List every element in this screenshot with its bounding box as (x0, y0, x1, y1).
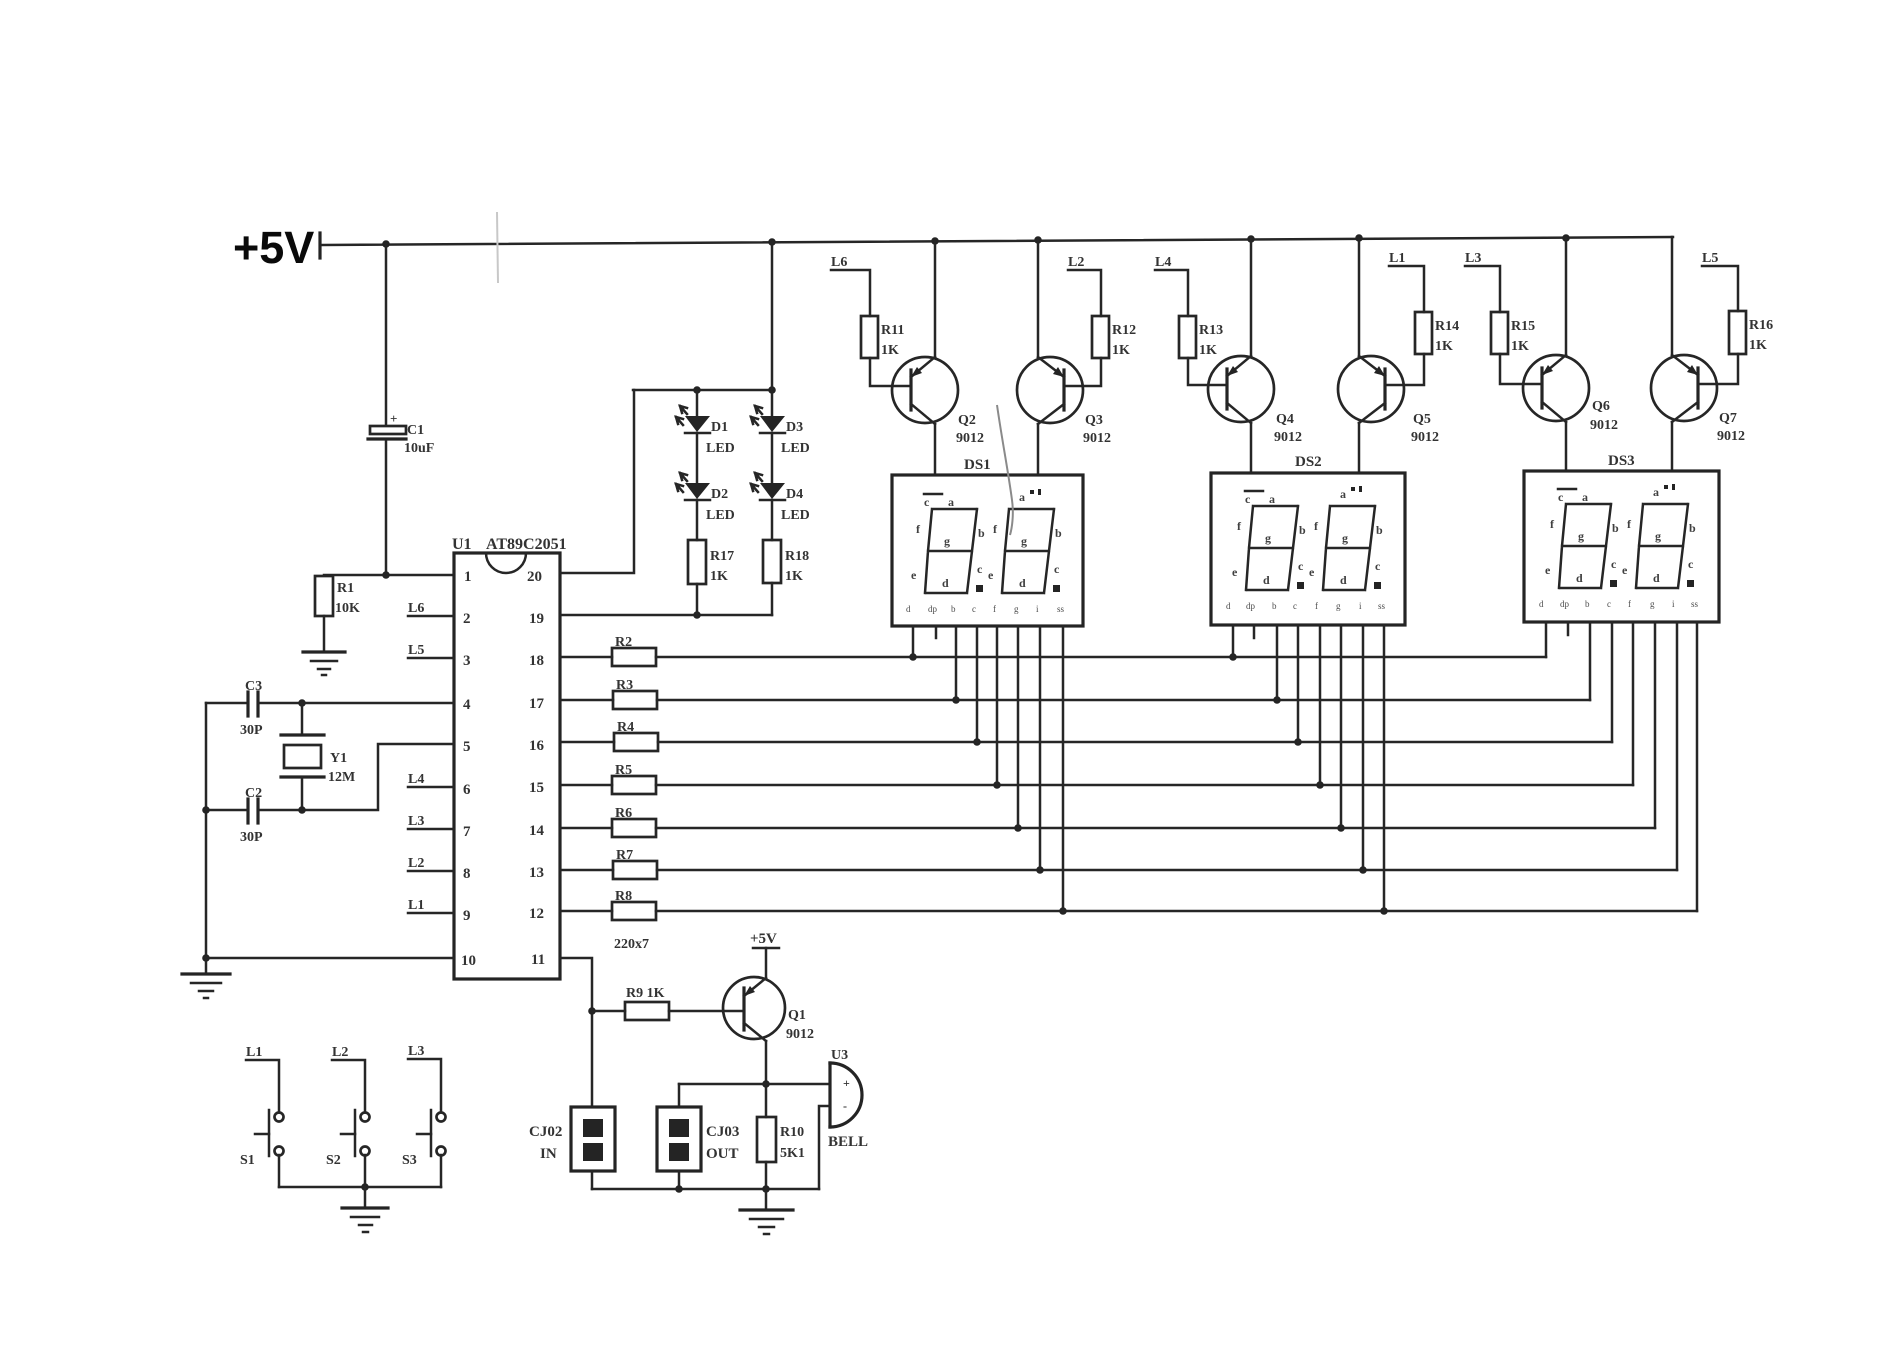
svg-text:9012: 9012 (956, 431, 984, 446)
connector CON3 OUT (657, 1107, 739, 1171)
display DS2 body (1211, 473, 1405, 625)
svg-text:12M: 12M (328, 770, 355, 785)
svg-text:f: f (1628, 599, 1631, 609)
wire pin 5 elbow (258, 744, 454, 810)
wire DS3 pin c to bus c end (1611, 622, 1614, 742)
svg-text:R10: R10 (780, 1125, 804, 1140)
svg-text:Q3: Q3 (1085, 413, 1103, 428)
resistor R11 1K (861, 316, 904, 358)
svg-text:d: d (906, 604, 911, 614)
svg-text:e: e (1309, 565, 1315, 579)
svg-text:+: + (843, 1076, 850, 1090)
resistor R13 1K (1179, 316, 1223, 358)
DS1 left digit letters (911, 494, 985, 592)
DS2 bottom pin name row (1226, 601, 1386, 611)
svg-text:L1: L1 (408, 898, 424, 913)
svg-text:D3: D3 (786, 420, 803, 435)
wire DS3 pin a to bus a end (1545, 622, 1548, 657)
node bus e / DS2 junction (1337, 824, 1345, 832)
+5V symbol above Q1 (750, 931, 779, 948)
svg-text:1K: 1K (1435, 339, 1453, 354)
wire R11 to Q2 base (870, 358, 911, 386)
svg-text:g: g (1342, 531, 1348, 545)
node D1 column junction (693, 386, 701, 394)
wire segment bus g (R8 to DS3) (656, 910, 1697, 913)
svg-text:d: d (1340, 573, 1347, 587)
svg-text:a: a (1019, 490, 1025, 504)
node pin10 corner junction (202, 954, 210, 962)
wire +5V to Q1 emitter (765, 948, 768, 978)
DS1 right digit letters (988, 489, 1062, 592)
wire Q6 emitter to rail (1565, 238, 1568, 355)
wire crystal top stub (301, 703, 304, 734)
wire DS3 pin e to bus e end (1654, 622, 1657, 828)
wire R18 bottom riser (771, 583, 774, 615)
node bus e / DS1 junction (1014, 824, 1022, 832)
svg-text:19: 19 (529, 611, 544, 627)
svg-text:L4: L4 (1155, 255, 1171, 270)
wire pin 1 (RST) (324, 574, 454, 577)
resistor R18 1K (763, 540, 809, 584)
scan artifact stroke near DS1 (997, 405, 1013, 535)
svg-text:LED: LED (706, 441, 735, 456)
wire bell feed line (679, 1083, 830, 1086)
svg-text:30P: 30P (240, 723, 263, 738)
wire DS2 pin e to bus e (1340, 625, 1343, 828)
scan artifact stroke above IC (497, 212, 498, 283)
wire segment bus f (R7 to DS3) (657, 869, 1677, 872)
node rail/Q4 junction (1247, 235, 1255, 243)
wire DS3 pin b to bus b end (1589, 622, 1592, 700)
wire DS1 pin d to bus d (996, 626, 999, 785)
svg-text:c: c (1375, 559, 1381, 573)
wire pin 11 down (560, 958, 592, 1107)
svg-text:R7: R7 (616, 848, 633, 863)
svg-text:c: c (1298, 559, 1304, 573)
svg-text:R8: R8 (615, 889, 632, 904)
resistor R15 1K (1491, 312, 1535, 354)
wire L5 to R16 (1702, 266, 1738, 311)
node bus g / DS1 junction (1059, 907, 1067, 915)
wire Q1 collector down (765, 1041, 768, 1117)
svg-text:5: 5 (463, 739, 471, 755)
wire DS1 common stub (935, 626, 938, 638)
svg-text:g: g (1655, 529, 1661, 543)
svg-text:b: b (1612, 521, 1619, 535)
svg-text:L6: L6 (408, 601, 424, 616)
wire pin 20 (560, 390, 634, 573)
svg-text:10K: 10K (335, 601, 360, 616)
wire segment bus e (R6 to DS3) (656, 827, 1655, 830)
wire Q4 collector to DS2 (1250, 423, 1253, 473)
svg-text:8: 8 (463, 866, 471, 882)
node bus b / DS2 junction (1273, 696, 1281, 704)
svg-text:6: 6 (463, 782, 471, 798)
IC U1 AT89C2051 body (454, 553, 560, 979)
wire pin 13 to R7 (560, 869, 613, 872)
svg-text:D1: D1 (711, 420, 728, 435)
svg-text:U1: U1 (452, 536, 472, 553)
wire DS2 pin g to bus g (1383, 625, 1386, 911)
svg-text:a: a (1582, 490, 1588, 504)
wire DS2 pin d to bus d (1319, 625, 1322, 785)
svg-text:g: g (1578, 529, 1584, 543)
svg-text:L3: L3 (1465, 251, 1481, 266)
wire pin 7 stub (408, 828, 454, 831)
node bus a / DS2 junction (1229, 653, 1237, 661)
wire D3 to D4 (771, 433, 774, 483)
svg-text:c: c (1558, 490, 1564, 504)
svg-text:12: 12 (529, 906, 544, 922)
svg-text:Q4: Q4 (1276, 412, 1294, 427)
wire Q3 collector to DS1 (1037, 424, 1040, 475)
wire segment bus a (R2 to DS3) (656, 656, 1546, 659)
svg-text:c: c (1293, 601, 1297, 611)
svg-text:a: a (948, 495, 954, 509)
resistor R14 1K (1415, 312, 1459, 354)
wire pin 8 stub (408, 870, 454, 873)
wire pin 19 to R17/R18 bottoms (560, 614, 772, 617)
wire R17 to pin19 line (696, 584, 699, 615)
node collector/bell line junction (762, 1080, 770, 1088)
wire L4 to R13 (1155, 270, 1188, 316)
svg-text:Q6: Q6 (1592, 399, 1610, 414)
node bus f / DS1 junction (1036, 866, 1044, 874)
svg-text:9012: 9012 (1411, 430, 1439, 445)
wire C2 left to vertical (206, 809, 248, 812)
svg-text:DS1: DS1 (964, 457, 991, 473)
capacitor C2 30P (240, 786, 263, 845)
svg-text:S2: S2 (326, 1153, 341, 1168)
ground left (XTAL) (182, 974, 230, 998)
svg-text:c: c (1607, 599, 1611, 609)
svg-text:R1: R1 (337, 581, 354, 596)
svg-text:d: d (1653, 571, 1660, 585)
svg-text:LED: LED (781, 508, 810, 523)
svg-text:L3: L3 (408, 1044, 424, 1059)
node crystal top junction (298, 699, 306, 707)
svg-text:C2: C2 (245, 786, 262, 801)
node rail/Q3 junction (1034, 236, 1042, 244)
svg-text:L6: L6 (831, 255, 847, 270)
svg-text:1K: 1K (785, 569, 803, 584)
wire R13 to Q4 base (1188, 358, 1227, 385)
wire DS2 pin f to bus f (1362, 625, 1365, 870)
node S2/ground junction (361, 1183, 369, 1191)
svg-text:c: c (972, 604, 976, 614)
svg-text:9: 9 (463, 908, 471, 924)
LED D4 (751, 473, 810, 523)
svg-text:e: e (1545, 563, 1551, 577)
wire C3 to pin 4 (258, 702, 454, 705)
svg-text:13: 13 (529, 865, 544, 881)
svg-text:f: f (1315, 601, 1318, 611)
ground below switches (342, 1208, 388, 1232)
resistor R5 (612, 776, 656, 794)
svg-text:4: 4 (463, 697, 471, 713)
wire pin 12 to R8 (560, 910, 612, 913)
wire Q4 emitter to rail (1250, 239, 1253, 356)
node C1/R1/pin1 junction (382, 571, 390, 579)
svg-text:g: g (1014, 604, 1019, 614)
svg-text:5K1: 5K1 (780, 1146, 805, 1161)
svg-text:20: 20 (527, 569, 542, 585)
wire D2 to R17 (696, 500, 699, 540)
wire pin 10 to left vertical (206, 957, 454, 960)
resistor R12 1K (1092, 316, 1136, 358)
wire D1 column top (696, 390, 699, 416)
wire R9 to Q1 base (669, 1010, 744, 1013)
svg-text:R11: R11 (881, 323, 904, 338)
svg-text:1K: 1K (710, 569, 728, 584)
wire DS3 pin d to bus d end (1632, 622, 1635, 785)
LED D1 (676, 406, 735, 456)
svg-text:b: b (951, 604, 956, 614)
svg-text:DS2: DS2 (1295, 454, 1322, 470)
svg-text:AT89C2051: AT89C2051 (486, 536, 567, 553)
wire L1 to R14 (1389, 266, 1424, 312)
svg-text:f: f (993, 604, 996, 614)
transistor Q6 9012 (1523, 355, 1618, 433)
svg-text:220x7: 220x7 (614, 937, 649, 952)
svg-text:30P: 30P (240, 830, 263, 845)
svg-text:CJ02: CJ02 (529, 1124, 562, 1140)
wire segment bus d (R5 to DS3) (656, 784, 1633, 787)
wire pin 18 to R2 (560, 656, 612, 659)
svg-text:b: b (1585, 599, 1590, 609)
svg-text:L1: L1 (246, 1045, 262, 1060)
node bus f / DS2 junction (1359, 866, 1367, 874)
svg-text:d: d (1226, 601, 1231, 611)
wire DS2 common stub (1253, 625, 1256, 638)
resistor R9 1K (625, 986, 669, 1020)
svg-text:C3: C3 (245, 679, 262, 694)
svg-text:R4: R4 (617, 720, 634, 735)
svg-text:ss: ss (1057, 604, 1065, 614)
svg-text:a: a (1340, 487, 1346, 501)
svg-text:e: e (911, 568, 917, 582)
node CON3/common junction (675, 1185, 683, 1193)
node C2/vertical junction (202, 806, 210, 814)
wire R16 to Q7 base (1698, 354, 1738, 384)
DS2 left digit (1246, 506, 1298, 590)
svg-text:9012: 9012 (786, 1027, 814, 1042)
svg-text:18: 18 (529, 653, 544, 669)
wire pin 9 stub (408, 912, 454, 915)
wire switch common line (279, 1186, 441, 1189)
svg-text:L5: L5 (408, 643, 424, 658)
svg-text:10: 10 (461, 953, 476, 969)
node R10/common junction (762, 1185, 770, 1193)
node bus g / DS2 junction (1380, 907, 1388, 915)
svg-text:R16: R16 (1749, 318, 1773, 333)
svg-text:R14: R14 (1435, 319, 1459, 334)
resistor R16 1K (1729, 311, 1773, 354)
resistor R17 1K (688, 540, 734, 584)
wire Q5 emitter to rail (1358, 238, 1361, 356)
transistor Q3 9012 (1017, 357, 1111, 446)
svg-text:g: g (944, 534, 950, 548)
svg-text:R17: R17 (710, 549, 734, 564)
crystal Y1 12M (281, 735, 355, 785)
svg-text:LED: LED (706, 508, 735, 523)
svg-text:1K: 1K (881, 343, 899, 358)
svg-text:9012: 9012 (1083, 431, 1111, 446)
connector CON2 IN (529, 1107, 615, 1171)
wire L2 to S2 (332, 1060, 365, 1112)
wire R14 to Q5 base (1385, 354, 1424, 385)
wire pin 17 to R3 (560, 699, 613, 702)
wire DS2 pin a to bus a (1232, 625, 1235, 657)
wire DS2 pin c to bus c (1297, 625, 1300, 742)
speaker U3 BELL (828, 1048, 868, 1150)
transistor Q1 9012 (723, 977, 814, 1042)
svg-text:S1: S1 (240, 1153, 255, 1168)
resistor R8 (612, 902, 656, 920)
wire switch ground stub (364, 1187, 367, 1207)
node bus a / DS1 junction (909, 653, 917, 661)
DS3 left digit (1559, 504, 1611, 588)
node pin11/R9 junction (588, 1007, 596, 1015)
svg-text:Q1: Q1 (788, 1008, 806, 1023)
svg-text:e: e (988, 568, 994, 582)
svg-text:BELL: BELL (828, 1134, 868, 1150)
svg-text:R18: R18 (785, 549, 809, 564)
svg-text:S3: S3 (402, 1153, 417, 1168)
svg-text:Q2: Q2 (958, 413, 976, 428)
switch S3 (402, 1110, 446, 1168)
wire D1 to D2 (696, 433, 699, 483)
resistor R3 (613, 691, 657, 709)
wire CON3 bottom stub (678, 1171, 681, 1189)
svg-text:a: a (1269, 492, 1275, 506)
node bus c / DS1 junction (973, 738, 981, 746)
svg-text:a: a (1653, 485, 1659, 499)
svg-text:Y1: Y1 (330, 751, 347, 766)
capacitor C1 10uF (368, 411, 434, 456)
node D3 column junction (768, 386, 776, 394)
LED D2 (676, 473, 735, 523)
DS2 right digit letters (1309, 486, 1383, 589)
svg-text:c: c (1054, 562, 1060, 576)
wire segment bus b (R3 to DS3) (657, 699, 1590, 702)
svg-text:U3: U3 (831, 1048, 848, 1063)
wire L3 to S3 (408, 1059, 441, 1112)
capacitor C3 30P (240, 679, 263, 738)
op-amp notch of U1 (486, 553, 526, 573)
display DS1 body (892, 475, 1083, 626)
svg-text:L2: L2 (1068, 255, 1084, 270)
DS3 bottom pin name row (1539, 599, 1699, 609)
wire S1 to common (278, 1155, 281, 1187)
svg-text:b: b (1376, 523, 1383, 537)
svg-text:b: b (1272, 601, 1277, 611)
wire Q2 collector to DS1 (934, 424, 937, 475)
wire L6 to R11 (831, 270, 870, 316)
svg-text:dp: dp (1560, 599, 1570, 609)
DS1 bottom pin name row (906, 604, 1065, 614)
svg-text:L1: L1 (1389, 251, 1405, 266)
svg-text:ss: ss (1691, 599, 1699, 609)
wire pin 16 to R4 (560, 741, 614, 744)
svg-text:1K: 1K (1112, 343, 1130, 358)
wire pin 15 to R5 (560, 784, 612, 787)
svg-text:DS3: DS3 (1608, 453, 1635, 469)
resistor R7 (613, 861, 657, 879)
node bus c / DS2 junction (1294, 738, 1302, 746)
svg-text:R13: R13 (1199, 323, 1223, 338)
wire to left ground (205, 958, 208, 973)
wire CON3 top riser (678, 1084, 681, 1107)
svg-text:c: c (924, 495, 930, 509)
wire S2 to common (364, 1155, 367, 1187)
svg-text:D2: D2 (711, 487, 728, 502)
svg-text:L4: L4 (408, 772, 424, 787)
node R17 bottom junction (693, 611, 701, 619)
svg-text:R6: R6 (615, 806, 632, 821)
wire CON2 bottom stub (591, 1171, 594, 1189)
wire DS1 pin g to bus g (1062, 626, 1065, 911)
node rail/Q6 junction (1562, 234, 1570, 242)
svg-text:CJ03: CJ03 (706, 1124, 739, 1140)
wire S3 to common (440, 1155, 443, 1187)
svg-text:L2: L2 (332, 1045, 348, 1060)
svg-text:-: - (843, 1099, 847, 1113)
DS3 right digit letters (1622, 484, 1696, 587)
svg-text:g: g (1650, 599, 1655, 609)
wire pin 2 stub (408, 615, 454, 618)
wire R10 to ground line (765, 1162, 768, 1189)
wire Q7 collector to DS3 (1671, 422, 1674, 471)
svg-text:b: b (1299, 523, 1306, 537)
wire L3 to R15 (1465, 266, 1500, 312)
node rail/C1 junction (382, 240, 390, 248)
resistor R6 (612, 819, 656, 837)
DS1 right digit (1002, 509, 1054, 593)
wire D4 to R18 (771, 500, 774, 540)
wire Q3 emitter to rail (1037, 240, 1040, 357)
wire DS2 pin b to bus b (1276, 625, 1279, 700)
wire rail to D3 column (771, 242, 774, 416)
wire R12 to Q3 base (1064, 358, 1101, 386)
wire C1 to pin1 row (385, 441, 388, 575)
transistor Q5 9012 (1338, 356, 1439, 445)
transistor Q4 9012 (1208, 356, 1302, 445)
wire left vertical (C3/C2/pin10) (205, 703, 208, 958)
svg-text:L3: L3 (408, 814, 424, 829)
svg-text:9012: 9012 (1590, 418, 1618, 433)
svg-text:L2: L2 (408, 856, 424, 871)
svg-text:D4: D4 (786, 487, 803, 502)
switch S2 (326, 1110, 370, 1168)
svg-text:d: d (1263, 573, 1270, 587)
svg-text:11: 11 (531, 952, 545, 968)
svg-text:17: 17 (529, 696, 545, 712)
svg-text:c: c (1688, 557, 1694, 571)
wire DS3 common stub (1567, 622, 1570, 635)
wire LED top header (633, 389, 772, 392)
wire DS1 pin b to bus b (955, 626, 958, 700)
svg-text:L5: L5 (1702, 251, 1718, 266)
wire DS3 pin g to bus g end (1696, 622, 1699, 911)
wire DS1 pin a to bus a (912, 626, 915, 657)
wire R15 to Q6 base (1500, 354, 1542, 384)
svg-text:3: 3 (463, 653, 471, 669)
svg-text:R5: R5 (615, 763, 632, 778)
svg-text:15: 15 (529, 780, 544, 796)
wire Q2 emitter to rail (934, 241, 937, 357)
svg-text:+5V: +5V (750, 931, 777, 947)
